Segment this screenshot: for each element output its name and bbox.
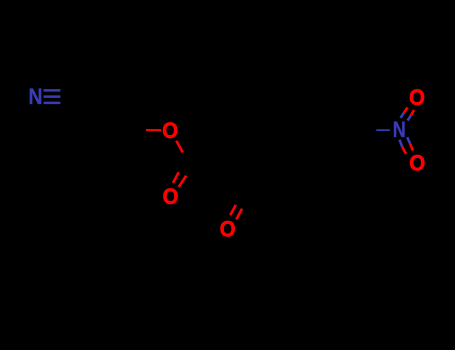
svg-text:N: N (393, 117, 406, 142)
double bond C=O ester (red halves) (173, 172, 186, 187)
svg-text:O: O (163, 184, 179, 209)
svg-text:O: O (409, 150, 425, 175)
svg-text:O: O (409, 85, 425, 110)
nitro upper O label (409, 85, 425, 110)
ketone O label (220, 217, 236, 242)
svg-text:O: O (220, 217, 236, 242)
svg-text:N: N (29, 84, 43, 109)
wire: bond O-C carbonyl (red half) (176, 141, 183, 153)
double bond N=O upper (blue halves) (401, 113, 412, 121)
nitro lower O label (409, 150, 425, 175)
double bond N=O lower (red halves) (402, 144, 413, 154)
nitrile N label (29, 84, 43, 109)
ester carbonyl O label (163, 184, 179, 209)
ester O label (162, 118, 178, 143)
nitro N label (393, 117, 406, 142)
wire: bond CH2-O ester (red half) (146, 129, 161, 131)
svg-text:O: O (162, 118, 178, 143)
double bond N=O lower (blue halves) (400, 137, 411, 147)
triple bond N#C (blue half) (44, 90, 61, 103)
wire: bond ring-N nitro (blue half) (376, 129, 390, 131)
double bond N=O upper (red halves) (404, 108, 414, 116)
double bond C=O ketone (red halves) (230, 205, 242, 220)
